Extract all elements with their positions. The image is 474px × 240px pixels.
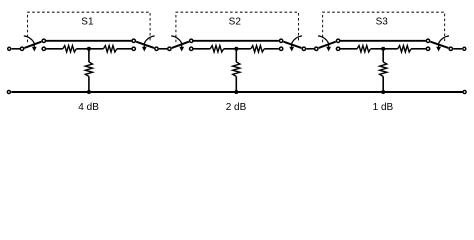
switch S1a input SPDT: pole <box>20 47 23 50</box>
wire: attenuator line right segment section 1 <box>117 48 132 50</box>
terminal: ground left <box>7 90 10 93</box>
wire: bypass line section 1 <box>46 40 131 42</box>
terminal: RF input <box>8 47 11 50</box>
wire: attenuator line right segment section 3 <box>411 48 426 50</box>
switch S2a input SPDT: pole <box>168 47 171 50</box>
wire: attenuator line left segment section 1 <box>46 48 63 50</box>
switch S1a: arm (pole to bypass contact) <box>24 42 41 48</box>
terminal: ground right <box>463 90 466 93</box>
switch S3b: attenuator throw contact <box>426 47 429 50</box>
label S1 <box>81 17 94 28</box>
switch S2b: arm (bypass contact to pole) <box>284 42 302 48</box>
resistor: shunt R1c <box>85 62 92 76</box>
wire: shunt top lead section 1 <box>88 49 90 62</box>
wire: ground rail <box>11 91 462 93</box>
svg-text:1 dB: 1 dB <box>373 102 394 113</box>
wire: link section 2 to section 3 <box>306 48 314 50</box>
switch S1a: bypass throw contact <box>42 39 45 42</box>
svg-text:S2: S2 <box>229 17 242 28</box>
switch S2b output SPDT: bypass throw contact <box>279 39 282 42</box>
svg-text:4 dB: 4 dB <box>78 102 99 113</box>
control box S3 (dashed outline) <box>323 12 445 42</box>
resistor: series R3a <box>357 46 371 52</box>
switch S3a: bypass throw contact <box>336 39 339 42</box>
node: ground rail junction section 1 <box>87 90 91 94</box>
wire: input to first switch pole <box>12 48 21 50</box>
switch S2a: arm (pole to bypass contact) <box>172 42 189 48</box>
switch S3b: arm (bypass contact to pole) <box>430 42 448 48</box>
wire: attenuator line left segment section 3 <box>340 48 357 50</box>
wire: link section 1 to section 2 <box>159 48 167 50</box>
control box S1 (dashed outline) <box>28 12 151 42</box>
node: ground rail junction section 3 <box>381 90 385 94</box>
switch S3a: arm (pole to bypass contact) <box>319 42 336 48</box>
wire: shunt top lead section 2 <box>235 49 237 62</box>
control box S2 (dashed outline) <box>176 12 299 42</box>
resistor: shunt R2c <box>233 62 240 76</box>
switch S1b: arm (bypass contact to pole) <box>136 42 154 48</box>
switch S2a: bypass throw contact <box>190 39 193 42</box>
switch S1b: pole <box>155 47 158 50</box>
wire: shunt bottom lead section 1 <box>88 76 90 92</box>
wire: attenuator line centre segment section 2 <box>224 48 251 50</box>
wire: attenuator line centre segment section 3 <box>371 48 398 50</box>
switch S1a: attenuator throw contact <box>42 47 45 50</box>
switch S3a input SPDT: pole <box>315 47 318 50</box>
switch S3b: pole <box>449 47 452 50</box>
terminal: RF output <box>463 47 466 50</box>
wire: last switch pole to output terminal <box>453 48 462 50</box>
switch S1a: actuation arrow <box>24 36 37 52</box>
switch S2b: pole <box>302 47 305 50</box>
value label: 4 dB attenuation <box>78 102 99 113</box>
switch S2b: attenuator throw contact <box>279 47 282 50</box>
wire: shunt top lead section 3 <box>382 49 384 62</box>
wire: bypass line section 3 <box>340 40 425 42</box>
resistor: series R3b <box>398 46 411 52</box>
resistor: series R1a <box>63 46 77 52</box>
node: tee junction section 2 <box>234 47 238 51</box>
switch S1b: attenuator throw contact <box>132 47 135 50</box>
node: tee junction section 1 <box>87 47 91 51</box>
switch S3b output SPDT: bypass throw contact <box>426 39 429 42</box>
switch S2a: attenuator throw contact <box>190 47 193 50</box>
value label: 1 dB attenuation <box>373 102 394 113</box>
node: ground rail junction section 2 <box>234 90 238 94</box>
switch S1b output SPDT: bypass throw contact <box>132 39 135 42</box>
switch S3a: attenuator throw contact <box>336 47 339 50</box>
node: tee junction section 3 <box>381 47 385 51</box>
wire: attenuator line right segment section 2 <box>264 48 279 50</box>
switch S2b: actuation arrow <box>289 36 302 52</box>
svg-text:2 dB: 2 dB <box>226 102 247 113</box>
resistor: shunt R3c <box>380 62 387 76</box>
wire: bypass line section 2 <box>194 40 279 42</box>
resistor: series R1b <box>103 46 116 52</box>
switch S2a: actuation arrow <box>171 36 184 52</box>
label S2 <box>229 17 242 28</box>
svg-text:S1: S1 <box>81 17 94 28</box>
wire: shunt bottom lead section 2 <box>235 76 237 92</box>
switch S1b: actuation arrow <box>142 36 155 52</box>
wire: attenuator line centre segment section 1 <box>76 48 103 50</box>
wire: shunt bottom lead section 3 <box>382 76 384 92</box>
label S3 <box>376 17 389 28</box>
switch S3b: actuation arrow <box>436 36 449 52</box>
resistor: series R2a <box>210 46 224 52</box>
switch S3a: actuation arrow <box>318 36 331 52</box>
wire: attenuator line left segment section 2 <box>194 48 211 50</box>
svg-text:S3: S3 <box>376 17 389 28</box>
value label: 2 dB attenuation <box>226 102 247 113</box>
resistor: series R2b <box>251 46 264 52</box>
